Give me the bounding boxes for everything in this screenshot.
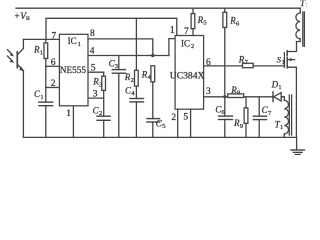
- wire UC384X pin5: [190, 109, 192, 137]
- svg-text:8: 8: [90, 29, 95, 39]
- svg-text:4: 4: [90, 47, 95, 57]
- svg-text:5: 5: [162, 123, 165, 130]
- resistor R7: [238, 55, 253, 68]
- svg-text:1: 1: [282, 59, 285, 66]
- wire bottom rail: [23, 136, 296, 138]
- wire gate: [253, 65, 284, 67]
- transformer T1 core top: [302, 12, 304, 46]
- capacitor C5: [147, 119, 166, 138]
- svg-text:NE555: NE555: [60, 65, 86, 75]
- svg-text:1: 1: [278, 84, 281, 91]
- svg-text:1: 1: [170, 25, 175, 36]
- svg-text:2: 2: [131, 77, 134, 84]
- phototransistor VT: [8, 39, 25, 137]
- wire UC384X pin6: [204, 65, 243, 67]
- wire NE555 pin1: [72, 106, 74, 138]
- svg-text:1: 1: [78, 41, 81, 48]
- wire UC384X pin2: [177, 109, 179, 137]
- resistor R5: [191, 8, 207, 35]
- svg-text:6: 6: [51, 58, 56, 68]
- capacitor C1: [34, 88, 53, 138]
- svg-text:6: 6: [206, 58, 211, 68]
- wire NE555 pin6: [46, 65, 60, 67]
- svg-text:1: 1: [40, 50, 43, 57]
- wire UC384X pin7 label: [184, 27, 189, 37]
- wire NE555 pin7: [23, 38, 59, 40]
- svg-text:3: 3: [93, 90, 98, 100]
- wire NE555 pin4: [88, 55, 169, 57]
- capacitor C7: [253, 97, 272, 138]
- svg-text:1: 1: [40, 94, 43, 101]
- transformer T1 secondary: [281, 97, 288, 138]
- light arrow 2: [8, 56, 13, 61]
- svg-text:1: 1: [280, 124, 283, 131]
- svg-text:7: 7: [184, 27, 189, 37]
- svg-text:IC: IC: [68, 36, 77, 46]
- wire UC384X pin1 label: [170, 25, 175, 36]
- node junction dot pin4/pin8: [151, 54, 154, 57]
- capacitor C6: [215, 97, 232, 138]
- svg-text:8: 8: [237, 89, 240, 96]
- transformer T1 core bottom: [288, 95, 290, 135]
- wire NE555 pin2: [46, 87, 60, 89]
- svg-text:5: 5: [91, 63, 96, 73]
- wire Vcc net (R1 top to UC pin1): [46, 18, 177, 39]
- svg-text:9: 9: [240, 123, 243, 130]
- svg-text:5: 5: [203, 20, 206, 27]
- resistor R6: [223, 8, 240, 97]
- pin 7 label: [51, 32, 56, 42]
- capacitor C3: [109, 56, 126, 138]
- wire NE555 pin3: [88, 97, 104, 99]
- transformer T1 label top: [300, 0, 309, 9]
- svg-text:2: 2: [51, 79, 56, 89]
- op-amp IC2 UC384X box: [170, 36, 205, 110]
- resistor R3: [92, 76, 105, 98]
- svg-text:D: D: [271, 79, 279, 89]
- wire pin3 net right: [244, 96, 273, 98]
- wire pin4 to UC384X left pin: [169, 39, 175, 56]
- op-amp IC1 NE555 box: [59, 34, 88, 106]
- light arrow 1: [8, 50, 13, 55]
- svg-text:2: 2: [171, 113, 176, 123]
- wire NE555 pin8: [88, 39, 153, 56]
- diode D1: [271, 79, 285, 101]
- svg-text:2: 2: [99, 110, 102, 117]
- svg-text:1: 1: [306, 2, 307, 9]
- transistor S1 MOSFET: [277, 51, 297, 138]
- node +Vн label: [14, 12, 30, 22]
- wire NE555 pin5: [88, 72, 104, 76]
- capacitor C4: [125, 85, 144, 137]
- svg-text:IC: IC: [181, 38, 190, 48]
- transformer T1 label bottom: [275, 119, 284, 130]
- transformer T1 primary: [287, 8, 300, 51]
- svg-text:н: н: [26, 15, 30, 22]
- ground: [291, 137, 305, 154]
- resistor R2: [124, 18, 138, 98]
- svg-text:2: 2: [191, 43, 194, 50]
- resistor R4: [141, 66, 155, 119]
- svg-text:1: 1: [66, 109, 71, 119]
- wire UC384X pin3: [204, 96, 228, 98]
- capacitor C2: [93, 98, 110, 137]
- resistor R9: [233, 97, 248, 138]
- resistor R8: [228, 85, 244, 98]
- node junction dot pin3/C6: [223, 95, 226, 98]
- wire top rail +V: [16, 7, 300, 9]
- svg-text:UC384X: UC384X: [170, 70, 205, 81]
- svg-text:3: 3: [206, 87, 211, 97]
- svg-text:7: 7: [51, 32, 56, 42]
- svg-text:3: 3: [115, 63, 118, 70]
- svg-text:3: 3: [99, 81, 102, 88]
- resistor R1: [33, 39, 48, 66]
- svg-text:5: 5: [183, 112, 188, 122]
